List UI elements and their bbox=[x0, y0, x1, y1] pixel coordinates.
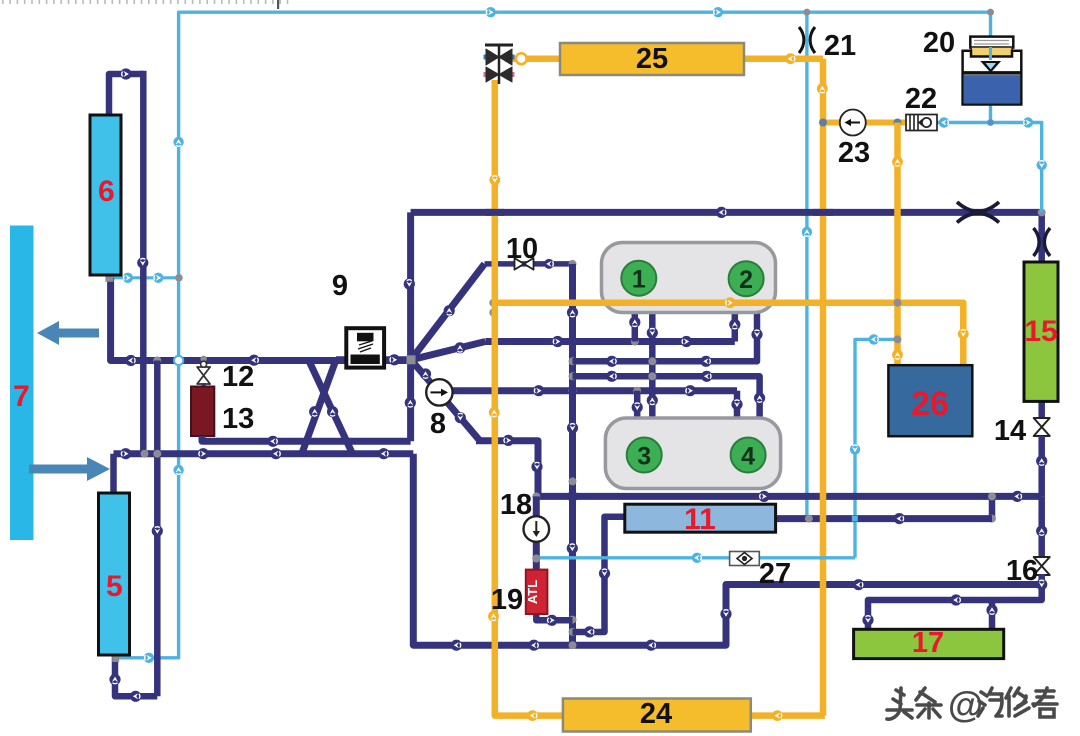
wire lb connector on valve27 line bbox=[692, 553, 702, 563]
wire orange pump23 branch bbox=[823, 120, 906, 126]
wire connector ring on pump8 diagonal bbox=[455, 412, 466, 423]
air flow arrow left bbox=[37, 321, 99, 345]
svg-text:1: 1 bbox=[632, 266, 646, 294]
wire connector left #3 b bbox=[701, 371, 712, 382]
ruler ticks bbox=[2, 0, 288, 9]
wire pack line #2 bbox=[573, 313, 758, 361]
wire lower horizontal to crossing bbox=[114, 450, 414, 457]
cell 2 bbox=[729, 261, 764, 296]
node gray cap valve-12 stub bbox=[200, 356, 206, 362]
node dot orange tee bbox=[489, 299, 497, 307]
wire connector down on #4 riser bbox=[731, 399, 742, 410]
chiller 11 bbox=[625, 504, 776, 532]
wire orange connector up mid bbox=[489, 407, 500, 418]
wire connector down on x157 bbox=[152, 525, 163, 536]
valve 14 bbox=[1034, 418, 1050, 436]
svg-text:26: 26 bbox=[911, 385, 949, 423]
wire connector down pump8 drop bbox=[531, 461, 542, 472]
node gray square radiator-6 bottom port bbox=[105, 274, 113, 282]
wire horizontal under heater box 9 bbox=[336, 356, 411, 363]
wire pack stub x634 bbox=[632, 313, 639, 342]
svg-text:15: 15 bbox=[1024, 315, 1057, 348]
svg-text:18: 18 bbox=[500, 489, 532, 521]
wire connector down below valve16 bbox=[1036, 579, 1047, 590]
svg-text:22: 22 bbox=[905, 83, 937, 115]
wire diagonal lower-left to upper-right bbox=[302, 360, 336, 454]
wire lb connector before corner bbox=[1023, 117, 1033, 127]
wire light-blue reservoir drop bbox=[989, 12, 992, 38]
wire connector left on upper horizontal bbox=[125, 355, 136, 366]
wire pump8 lower elbow bbox=[476, 441, 538, 497]
watermark chars qi-xiu-jun bbox=[978, 688, 1057, 717]
wire connector up on diagonal A bbox=[309, 406, 320, 417]
node gray dot x143 end bbox=[141, 450, 149, 458]
wire chiller-11 left elbow bbox=[573, 517, 626, 632]
node dot orange at lb elbow bbox=[894, 335, 902, 343]
wire light-blue left vertical connector up 1 bbox=[173, 137, 183, 147]
node dot lb below reservoir bbox=[987, 119, 994, 126]
wire light-blue ring at crossing y360 bbox=[174, 356, 183, 365]
svg-text:5: 5 bbox=[106, 570, 123, 603]
heater core 13 bbox=[191, 387, 214, 437]
pump 18 bbox=[524, 516, 550, 542]
wire pack column x652 bbox=[649, 313, 656, 419]
PTC heater 15 bbox=[1024, 262, 1058, 401]
node dot top lb junction b bbox=[987, 9, 994, 16]
node gray dot x157 crossing bbox=[153, 450, 161, 458]
wire connector up #3 drop bbox=[754, 392, 765, 403]
svg-text:25: 25 bbox=[636, 43, 668, 75]
wire connector on shallow diagonal bbox=[454, 342, 465, 353]
wire connector right pump8 run 2 bbox=[685, 385, 696, 396]
wire hub vertical x410 bbox=[407, 212, 414, 441]
wire connector left lower horizontal 3 bbox=[270, 448, 281, 459]
node dot x536 y496 bbox=[532, 492, 540, 500]
node hub gray square bbox=[407, 355, 416, 364]
svg-text:23: 23 bbox=[838, 137, 870, 169]
wire top navy header bbox=[411, 209, 1042, 216]
svg-text:21: 21 bbox=[824, 30, 856, 62]
wire connector right pump8 elbow bbox=[503, 435, 514, 446]
wire connector left on heater-13 line bbox=[267, 436, 278, 447]
wire stub connector 1 bbox=[123, 273, 133, 283]
wire pump-8 lower diagonal bbox=[447, 402, 478, 441]
electric heater ATL 19 bbox=[526, 570, 548, 614]
svg-text:27: 27 bbox=[759, 558, 791, 590]
node gray dot light-blue end bbox=[805, 515, 813, 523]
node square x572 y496 bbox=[569, 492, 577, 500]
node dot top lb junction a bbox=[804, 9, 811, 16]
svg-text:13: 13 bbox=[222, 403, 254, 435]
wire connector up x572 a bbox=[567, 307, 578, 318]
wire light-blue top connector right 2 bbox=[713, 7, 723, 17]
wire long run y496 bbox=[536, 493, 1041, 500]
wire connector on diagonal to valve 10 bbox=[444, 305, 455, 316]
svg-text:20: 20 bbox=[923, 27, 955, 59]
wire pack line #3 bbox=[573, 376, 760, 419]
node dot lb tap at pump18 line bbox=[532, 555, 540, 563]
wire connector down #2 riser bbox=[751, 329, 762, 340]
wire connector down on riser x726 bbox=[720, 608, 731, 619]
valve 16 bbox=[1034, 557, 1050, 575]
wire orange vertical x897 bbox=[894, 123, 901, 366]
svg-text:8: 8 bbox=[430, 408, 446, 440]
wire vertical from radiator-6 elbow down bbox=[140, 71, 147, 454]
svg-text:7: 7 bbox=[13, 380, 30, 413]
wire valve-12 to heater-13 bbox=[202, 383, 206, 387]
svg-text:24: 24 bbox=[640, 698, 672, 730]
fan shroud 7 bbox=[10, 226, 34, 541]
svg-text:12: 12 bbox=[222, 361, 254, 393]
wire orange connector below corner bbox=[817, 83, 828, 94]
svg-text:2: 2 bbox=[739, 266, 753, 294]
wire orange bottom right link bbox=[751, 712, 825, 719]
wire connector down x572 c bbox=[567, 543, 578, 554]
wire condenser-5 bottom loop bbox=[115, 656, 157, 696]
wire connector left on bottom run 1 bbox=[451, 640, 462, 651]
evaporator 24 bbox=[563, 699, 751, 732]
battery pack module 3-4 bbox=[605, 418, 780, 489]
wire light-blue stub radiator 6 bottom bbox=[109, 276, 178, 279]
wire pump18 chain mid bbox=[533, 541, 540, 571]
wire connector right before hub bbox=[389, 354, 400, 365]
node gray top junction at line-21 drop bbox=[804, 9, 811, 16]
check valve 27 bbox=[730, 552, 760, 566]
wire orange ring top bbox=[785, 53, 796, 64]
wire pump-8 right run (#4) bbox=[452, 387, 737, 394]
restriction 21 bbox=[799, 27, 815, 53]
wire heater-13 bottom elbow bbox=[202, 436, 411, 441]
wire connector left #2 b bbox=[700, 356, 711, 367]
node gray top junction at reservoir drop bbox=[987, 9, 994, 16]
pump 8 bbox=[426, 379, 452, 405]
wire connector left on upper horizontal 2 bbox=[248, 355, 259, 366]
wire orange ring bottom right bbox=[772, 710, 783, 721]
wire connector right ATL elbow bbox=[546, 615, 557, 626]
wire chiller-11 right run y518 bbox=[776, 515, 992, 522]
wire PTC-15 to valve 14 bbox=[1038, 401, 1045, 418]
wire x637 drop to pack34 bbox=[634, 391, 641, 419]
wire connector left y496 bbox=[1012, 491, 1023, 502]
radiator 6 bbox=[90, 115, 121, 275]
svg-text:@: @ bbox=[948, 684, 983, 725]
node gray cap at x572 top bbox=[569, 260, 577, 268]
wire orange ring at valve bbox=[516, 53, 527, 64]
wire ATL drop and elbow bbox=[536, 612, 572, 620]
node gray dot start of vertical x157 bbox=[153, 357, 161, 365]
wire hub to pump-8 diagonal bbox=[411, 360, 430, 382]
node dot orange at x823 bbox=[819, 119, 827, 127]
svg-text:16: 16 bbox=[1006, 555, 1038, 587]
wire connector down on vertical x143 bbox=[137, 257, 148, 268]
valve 12 bbox=[197, 367, 210, 384]
wire stub connector 2 bbox=[153, 273, 163, 283]
gas cooler 25 bbox=[560, 43, 744, 75]
svg-text:4: 4 bbox=[741, 442, 755, 470]
wire connector up x652 bbox=[647, 395, 658, 406]
wire light-blue valve27 line bbox=[536, 556, 855, 559]
wire connector left on y600 bbox=[950, 594, 961, 605]
wire orange top right link bbox=[744, 55, 823, 62]
wire connector up x634 bbox=[629, 317, 640, 328]
wire light-blue bottom connector right bbox=[144, 653, 154, 663]
wire condenser-5 top riser bbox=[110, 454, 117, 493]
wire diagonal upper-left to lower-right bbox=[309, 361, 353, 454]
wire hub shallow diagonal to pack line bbox=[411, 342, 485, 360]
wire connector up on diagonal B bbox=[327, 406, 338, 417]
wire connector down on elbow bbox=[599, 568, 610, 579]
wire orange right vertical bbox=[820, 59, 827, 716]
node lb square junction at y518 bbox=[852, 516, 858, 522]
wire navy header overpass at orange x823 bbox=[813, 209, 833, 216]
wire connector left #2 a bbox=[606, 356, 617, 367]
wire radiator-6 bottom drop bbox=[111, 278, 411, 361]
wire stub x992 to heater17 bbox=[989, 600, 996, 629]
svg-text:9: 9 bbox=[332, 270, 348, 302]
wire orange left link to valve bbox=[505, 55, 561, 62]
cell 3 bbox=[627, 438, 662, 473]
wire connector down on hub vertical bbox=[404, 278, 415, 289]
wire connector left y518 bbox=[894, 513, 905, 524]
wire connector left on bottom loop bbox=[130, 691, 141, 702]
wire light-blue reservoir out bbox=[989, 103, 992, 123]
svg-text:3: 3 bbox=[637, 442, 651, 470]
condenser 5 bbox=[99, 493, 130, 655]
wire connector on radiator-6 top elbow bbox=[120, 68, 131, 79]
wire orange ring on y303 bbox=[725, 297, 736, 308]
wire connector left on top header bbox=[716, 207, 727, 218]
restriction vertical above PTC-15 bbox=[1034, 228, 1051, 256]
wire pump18 chain upper bbox=[533, 496, 540, 517]
svg-text:14: 14 bbox=[994, 415, 1026, 447]
node junction x572 on pump8 run bbox=[569, 387, 577, 395]
wire connector right on H1 2 bbox=[681, 336, 692, 347]
wire lb connector left on elbow bbox=[869, 334, 879, 344]
heater 17 bbox=[854, 629, 1004, 658]
node dot orange cross bbox=[894, 299, 902, 307]
restriction on top header bbox=[957, 202, 999, 223]
wire orange heater feed y303 bbox=[493, 303, 963, 365]
wire connector up above valve16 bbox=[1036, 525, 1047, 536]
wire connector right on H1 bbox=[552, 336, 563, 347]
wire orange ring on drop to 26 bbox=[958, 329, 969, 340]
wire orange ring bottom left bbox=[527, 710, 538, 721]
wire connector up below valve14 bbox=[1036, 455, 1047, 466]
wire orange connector up low bbox=[488, 611, 499, 622]
wire lb connector down x1041 bbox=[1037, 160, 1047, 170]
wire connector right lower horizontal bbox=[120, 448, 131, 459]
wire hub diagonal to valve-10 line bbox=[411, 264, 485, 360]
wire #4 right riser to pack34 bbox=[734, 391, 741, 419]
wire connector down x637 drop bbox=[632, 402, 643, 413]
wire light-blue top connector right bbox=[486, 7, 496, 17]
reservoir 20 cap bbox=[970, 37, 1013, 48]
wire connector left on elbow bottom bbox=[584, 626, 595, 637]
heater core 26 bbox=[888, 365, 972, 436]
battery pack module 1-2 bbox=[602, 243, 776, 313]
wire connector on pump8 diagonal bbox=[420, 368, 431, 379]
wire orange connector up x897 b bbox=[892, 349, 903, 360]
node dots x652 bbox=[648, 357, 656, 365]
wire light-blue valve22 to corner bbox=[937, 123, 1042, 213]
wire connector up on hub vertical lower bbox=[405, 397, 416, 408]
wire lower-right drop x413 bbox=[413, 454, 1041, 646]
wire orange main vertical left bbox=[495, 80, 563, 716]
wire connector up on 5-bottom drop bbox=[109, 674, 120, 685]
node gray dot top right corner bbox=[1038, 208, 1046, 216]
cell 1 bbox=[621, 261, 656, 296]
wire line21 connector up bbox=[802, 227, 812, 237]
node gray dot H1 at x634 bbox=[631, 338, 639, 346]
air flow arrow right bbox=[29, 457, 110, 481]
watermark chars tou-tiao bbox=[887, 688, 941, 719]
wire light-blue line 21 vertical bbox=[805, 12, 808, 518]
wire connector left on y584 run bbox=[853, 579, 864, 590]
node gray square condenser-5 bottom port bbox=[112, 655, 119, 662]
svg-text:10: 10 bbox=[506, 233, 538, 265]
wire valve16 to heater-17 run bbox=[868, 574, 1042, 629]
wire valve-10 horizontal bbox=[485, 261, 573, 267]
wire connector right lower horizontal 2 bbox=[198, 448, 209, 459]
svg-text:ATL: ATL bbox=[525, 580, 540, 604]
wire connector up on stub to 17 bbox=[986, 604, 997, 615]
wire mid vertical x572 bbox=[569, 264, 576, 645]
node gray dot at light-blue vertical bbox=[175, 274, 183, 282]
wire connector left on bottom run 2 bbox=[528, 640, 539, 651]
reservoir 20 body bbox=[963, 51, 1022, 105]
wire connector left on bottom run 3 bbox=[646, 640, 657, 651]
svg-text:19: 19 bbox=[491, 584, 523, 616]
wire stub x992 bbox=[989, 496, 996, 518]
node dots stub x992 bbox=[988, 492, 996, 500]
expansion valve top (4-way) bbox=[484, 45, 515, 84]
wire connector down x652 bbox=[647, 327, 658, 338]
wire orange connector ring a bbox=[489, 175, 500, 186]
wire connector up on H1 riser bbox=[729, 319, 740, 330]
node junction x637 on pump8 run bbox=[633, 387, 641, 395]
wire connector right y496 bbox=[758, 491, 769, 502]
node dot lightblue tap bbox=[532, 555, 540, 563]
cell 4 bbox=[731, 438, 766, 473]
wire connector down x572 b bbox=[567, 422, 578, 433]
wire light-blue elbow to heater-26 bbox=[855, 339, 898, 557]
valve 10 bbox=[515, 258, 534, 270]
wire valve-12 stub from upper horizontal bbox=[202, 361, 206, 368]
heater box 9 bbox=[346, 328, 384, 367]
wire connector down to heater17 bbox=[862, 614, 873, 625]
wire y496 to valve16 bbox=[1038, 496, 1045, 558]
svg-text:17: 17 bbox=[912, 627, 944, 659]
check valve 22 bbox=[906, 115, 937, 131]
wire vertical x157 down to bottom loop bbox=[154, 361, 161, 697]
wire reservoir chain upper bbox=[1038, 212, 1045, 263]
wire navy header overpass at orange x494 bbox=[486, 209, 504, 216]
wire connector left #3 a bbox=[606, 371, 617, 382]
wire lb connector right of valve22 bbox=[939, 117, 949, 127]
pump 23 bbox=[840, 110, 866, 136]
node dots x572 bbox=[569, 357, 577, 365]
wire connector left after valve 10 bbox=[544, 259, 554, 269]
wire lb connector down on elbow bbox=[850, 444, 860, 454]
wire light-blue main loop (top header, left drop to condenser 5) bbox=[118, 12, 991, 658]
wire radiator-6 top elbow bbox=[109, 74, 143, 115]
wire connector right pump8 run bbox=[533, 385, 544, 396]
wire pack upper feed H1 bbox=[485, 338, 734, 345]
wire light-blue left vertical connector up 2 bbox=[173, 465, 183, 475]
wire H1 right riser to pack bbox=[732, 313, 739, 342]
svg-text:11: 11 bbox=[684, 503, 716, 536]
reservoir 20 inner pipe bbox=[989, 47, 992, 60]
reservoir 20 neck bbox=[971, 47, 1012, 56]
wire orange connector up x897 a bbox=[892, 156, 903, 167]
wire connector left lower horizontal 4 bbox=[378, 448, 389, 459]
wire valve14 down bbox=[1038, 436, 1045, 496]
svg-text:6: 6 bbox=[98, 175, 115, 208]
